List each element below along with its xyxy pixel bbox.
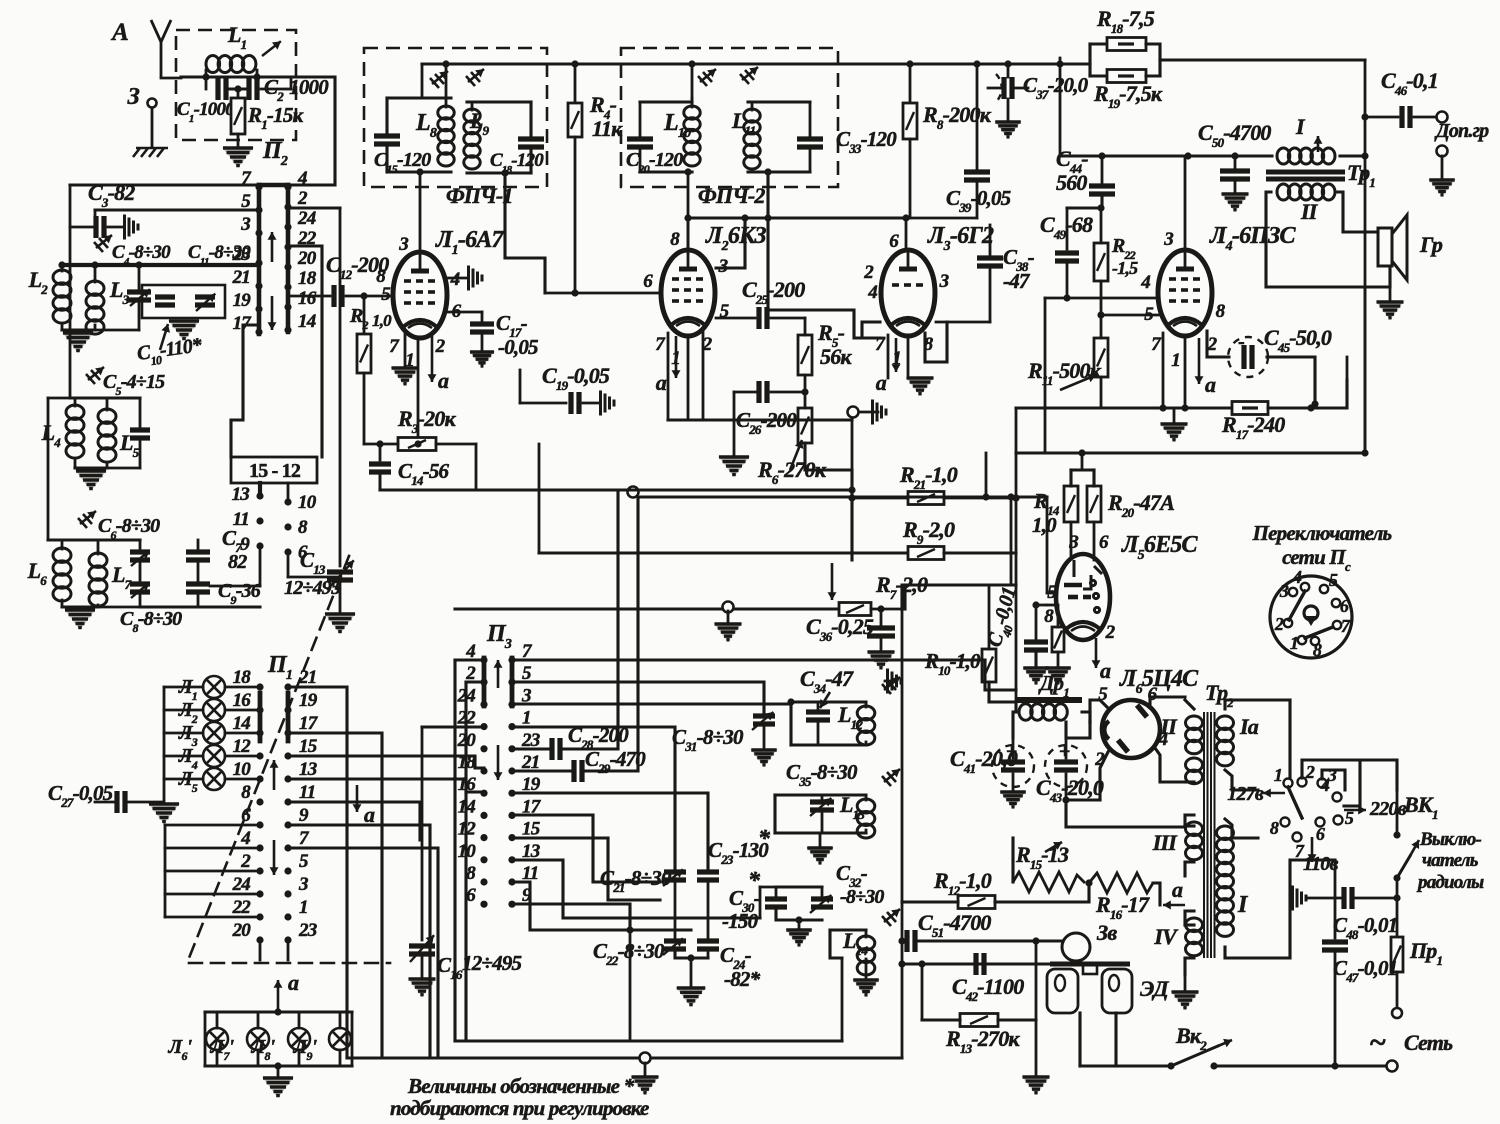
- wire: [74, 398, 77, 406]
- wire: [512, 815, 660, 882]
- lamp Л2: [203, 699, 225, 721]
- capacitor C29: [574, 760, 582, 782]
- wire: [210, 585, 260, 588]
- svg-text:8: 8: [670, 229, 680, 250]
- wire pin6: [1150, 697, 1185, 705]
- wire top bus: [422, 62, 1090, 65]
- wire: [421, 955, 424, 977]
- svg-text:14: 14: [298, 311, 316, 332]
- wire pin7: [887, 335, 890, 378]
- wire: [61, 325, 64, 330]
- wire: [727, 611, 730, 622]
- wire: [288, 825, 430, 1058]
- wire long line R7: [455, 607, 839, 610]
- Tp2 core: [1204, 712, 1215, 958]
- wire: [1288, 700, 1291, 783]
- svg-text:56к: 56к: [820, 344, 852, 369]
- antenna A: [151, 20, 171, 78]
- tube Л6 5Ц4С: [1102, 700, 1160, 758]
- switch arrow down: [268, 296, 277, 330]
- coil Tp2 IV: [1186, 918, 1203, 956]
- wire: [976, 64, 979, 170]
- wire tank top: [748, 100, 810, 103]
- wire: [225, 686, 260, 689]
- wire secondary left: [1266, 192, 1365, 287]
- wire: [1268, 380, 1347, 408]
- wire pin2: [1100, 752, 1108, 800]
- wire: [61, 540, 64, 549]
- wire tank top: [775, 793, 866, 796]
- arrow a down: [353, 785, 362, 812]
- wire Ia tap: [1225, 770, 1258, 790]
- wire lamp bus: [163, 687, 166, 800]
- wire R6 bottom: [805, 443, 852, 560]
- switch P2 left bridge: [257, 185, 262, 334]
- capacitor C30: [765, 899, 787, 907]
- wire: [287, 940, 290, 960]
- wire to right: [902, 585, 1016, 609]
- svg-text:ФПЧ-2: ФПЧ-2: [698, 183, 765, 208]
- wire: [1012, 774, 1015, 790]
- wire: [466, 680, 484, 683]
- wire: [1011, 860, 1014, 882]
- ground under C40: [1022, 667, 1049, 685]
- trimmer mark: [78, 511, 96, 528]
- wire: [165, 847, 260, 850]
- wire: [763, 724, 766, 748]
- svg-text:2: 2: [1274, 614, 1284, 634]
- wire: [1015, 690, 1018, 702]
- svg-text:А: А: [110, 19, 128, 46]
- wire: [760, 886, 776, 889]
- ground under C41: [999, 791, 1026, 809]
- dashed box input filter: [176, 30, 296, 140]
- wire: [204, 1012, 207, 1066]
- wire: [339, 1012, 342, 1028]
- resistor R4: [568, 103, 582, 137]
- svg-text:а: а: [1205, 372, 1216, 397]
- svg-text:-82*: -82*: [724, 967, 761, 991]
- wire: [903, 585, 906, 609]
- wire: [230, 87, 245, 90]
- coil L8: [438, 106, 454, 166]
- wire earth lead: [151, 108, 154, 146]
- wire: [94, 210, 97, 227]
- wire: [164, 709, 203, 712]
- capacitor C8 trimmer: [130, 584, 150, 592]
- coil Tp2 I: [1217, 826, 1234, 936]
- capacitor C21 trimmer: [664, 872, 686, 880]
- wire: [734, 391, 758, 394]
- coil L6: [53, 548, 71, 601]
- wire: [564, 490, 618, 749]
- capacitor near L5: [130, 430, 150, 438]
- wire: [986, 495, 1047, 498]
- wire: [538, 444, 541, 553]
- wire: [1163, 406, 1232, 409]
- svg-text:а: а: [438, 368, 449, 393]
- coil Tp1 secondary: [1277, 184, 1335, 200]
- switch P1 left bridge: [258, 693, 263, 741]
- wire: [164, 778, 203, 781]
- wire: [789, 702, 792, 745]
- capacitor C49: [1055, 253, 1079, 261]
- capacitor C19: [571, 392, 579, 414]
- switch P1 arrow up: [270, 760, 279, 790]
- wire: [298, 1012, 301, 1028]
- ground under 6G2: [906, 377, 935, 396]
- wire: [436, 443, 476, 446]
- capacitor C24: [697, 941, 719, 949]
- ground under R13: [1022, 1076, 1051, 1095]
- wire: [288, 733, 382, 1058]
- resistor R7: [839, 603, 871, 616]
- svg-text:2: 2: [1305, 762, 1315, 782]
- svg-text:3: 3: [398, 234, 408, 255]
- wire: [1389, 287, 1392, 300]
- wire: [1214, 1064, 1386, 1067]
- svg-text:радиолы: радиолы: [1416, 872, 1484, 893]
- trimmer mark: [430, 71, 448, 88]
- wire: [690, 958, 693, 986]
- switch P1 right bridge: [286, 693, 291, 741]
- wire: [771, 317, 805, 320]
- tube Л2 6К3: [661, 250, 715, 336]
- wire: [61, 265, 64, 271]
- wire vertical: [851, 420, 854, 560]
- wire row 1: [512, 727, 675, 868]
- svg-text:5: 5: [299, 851, 309, 872]
- wire B+ line: [1060, 154, 1272, 157]
- wire: [139, 398, 142, 430]
- ground under C30 C32: [785, 929, 812, 947]
- wire: [512, 904, 691, 930]
- wire: [901, 902, 904, 1058]
- arrow a 6K3: [672, 336, 681, 378]
- wire: [216, 1012, 219, 1028]
- wire: [225, 732, 260, 735]
- capacitor C2: [249, 78, 257, 100]
- wire tank bottom: [775, 831, 866, 834]
- svg-text:22: 22: [232, 897, 252, 918]
- wire: [707, 880, 710, 941]
- wire: [288, 848, 438, 1058]
- svg-text:*: *: [758, 826, 771, 852]
- capacitor C20: [627, 139, 653, 147]
- resistor R1: [231, 98, 245, 134]
- wire: [421, 64, 424, 98]
- wire: [74, 460, 77, 468]
- wire tank bottom: [640, 170, 692, 173]
- capacitor C1: [218, 78, 226, 100]
- wire: [1159, 60, 1162, 76]
- svg-text:Переключатель: Переключатель: [1252, 521, 1392, 545]
- wire: [921, 964, 924, 1020]
- wire: [1346, 357, 1349, 380]
- svg-text:1,0: 1,0: [1032, 513, 1057, 537]
- svg-text:16: 16: [298, 288, 317, 309]
- svg-text:12: 12: [233, 736, 252, 757]
- wire: [1066, 263, 1069, 298]
- wire: [1100, 281, 1103, 315]
- wire: [161, 77, 181, 80]
- wire right vertical: [1364, 60, 1367, 453]
- wire pin4: [1155, 748, 1185, 782]
- capacitor C44: [1089, 186, 1115, 194]
- wire: [512, 747, 548, 750]
- wire: [1044, 298, 1047, 453]
- wire: [520, 402, 566, 405]
- svg-text:Величины обозначенные *: Величины обозначенные *: [407, 1074, 635, 1098]
- wire block left: [1088, 44, 1091, 76]
- svg-text:5: 5: [1047, 582, 1057, 603]
- wire: [1012, 738, 1015, 758]
- wire: [445, 64, 448, 98]
- wire: [164, 686, 203, 689]
- wire: [1334, 860, 1337, 938]
- capacitor C43: [1054, 762, 1078, 770]
- wire pin2: [702, 331, 705, 420]
- switch VK1 lever: [1397, 856, 1410, 878]
- wire: [1007, 99, 1010, 120]
- capacitor C27: [117, 791, 125, 813]
- Ps rotor: [1304, 606, 1318, 620]
- wire: [1101, 156, 1104, 183]
- wire: [94, 325, 97, 330]
- wire: [258, 483, 262, 496]
- ground arrow jack: [873, 400, 887, 425]
- wire: [1071, 468, 1094, 471]
- wire pin3 anode: [716, 218, 745, 268]
- svg-text:9: 9: [240, 534, 250, 555]
- wire: [821, 810, 824, 833]
- coil L5: [98, 409, 116, 462]
- wire: [519, 370, 522, 403]
- resistor R11: [1094, 338, 1108, 377]
- capacitor C17: [470, 324, 494, 332]
- wire: [1100, 377, 1103, 408]
- wire: [1034, 650, 1037, 666]
- svg-text:III: III: [1152, 830, 1179, 855]
- svg-text:3: 3: [240, 214, 250, 235]
- wire tank top: [467, 100, 531, 103]
- svg-text:6: 6: [241, 805, 251, 826]
- wire: [138, 300, 141, 330]
- wire: [1082, 712, 1090, 722]
- wire: [1090, 74, 1107, 77]
- coil L13: [857, 799, 875, 838]
- ground under C37: [994, 121, 1021, 139]
- wire: [1153, 883, 1160, 905]
- capacitor C45 electrolytic: [1228, 337, 1268, 377]
- svg-text:4: 4: [867, 282, 877, 303]
- svg-text:Выклю-: Выклю-: [1419, 829, 1481, 850]
- ground under C17: [469, 351, 495, 368]
- resistor R3: [398, 438, 436, 451]
- wire: [1007, 64, 1010, 77]
- arrow a up: [274, 980, 283, 1010]
- wire: [164, 755, 203, 758]
- wire: [288, 756, 484, 768]
- wire: [216, 1050, 219, 1066]
- coil Tp2 IIb: [1186, 758, 1203, 784]
- arrow 110v: [1308, 837, 1317, 862]
- ground 6E5S cathode: [1044, 667, 1071, 685]
- wire primary to bus: [1340, 154, 1365, 157]
- arrow lever: [1410, 840, 1419, 856]
- wire: [583, 402, 598, 405]
- ground arrow L12: [888, 669, 902, 694]
- network switch Ps circle: [1270, 576, 1352, 658]
- svg-text:8: 8: [1313, 640, 1322, 660]
- ground under C50: [1221, 193, 1250, 212]
- wire down left: [69, 185, 72, 265]
- wire: [773, 795, 776, 833]
- ground under L6 L7: [64, 609, 96, 630]
- wire: [138, 265, 141, 292]
- wire: [205, 70, 208, 77]
- wire pin5: [716, 317, 755, 320]
- svg-text:24: 24: [232, 874, 251, 895]
- svg-text:127в: 127в: [1227, 783, 1264, 805]
- svg-text:15 - 12: 15 - 12: [249, 460, 301, 482]
- wire: [819, 833, 822, 846]
- coil Tp2 III: [1186, 822, 1203, 860]
- wire pair top: [776, 885, 822, 888]
- trimmer mark: [882, 677, 900, 694]
- wire: [529, 149, 532, 173]
- svg-text:1: 1: [1171, 350, 1180, 371]
- wire: [165, 824, 260, 827]
- svg-text:560: 560: [1056, 170, 1087, 195]
- wire across L1: [181, 75, 291, 78]
- wire grid: [1045, 297, 1158, 300]
- wire L9 to tube Л2: [505, 173, 545, 293]
- wire: [453, 660, 456, 1041]
- wire: [48, 397, 70, 400]
- wire: [817, 702, 820, 712]
- svg-text:5: 5: [1329, 570, 1338, 590]
- svg-text:21: 21: [298, 667, 316, 688]
- wire: [1234, 156, 1237, 168]
- trimmer mark: [882, 769, 900, 786]
- wire: [259, 546, 262, 586]
- coil L3: [86, 281, 104, 334]
- wire: [421, 727, 424, 940]
- wire: [1015, 453, 1018, 585]
- wire tank top: [387, 96, 451, 99]
- svg-text:2: 2: [863, 262, 874, 283]
- earth ground: [133, 148, 168, 157]
- capacitor C32 trimmer: [811, 899, 833, 907]
- wire: [771, 391, 805, 394]
- wire: [464, 682, 467, 1041]
- wire: [989, 268, 992, 322]
- wire: [1100, 315, 1103, 338]
- wire: [1101, 314, 1158, 317]
- wire Ia top: [1225, 700, 1290, 709]
- arrow a 6E5S: [1092, 638, 1101, 668]
- wire: [61, 600, 64, 607]
- capacitor C46: [1402, 106, 1410, 128]
- trimmer mark: [698, 69, 716, 86]
- wire: [1185, 862, 1194, 876]
- wire: [1014, 702, 1017, 712]
- wire: [475, 444, 478, 490]
- wire: [902, 962, 1050, 965]
- arrow 220v: [1344, 806, 1366, 815]
- svg-text:чатель: чатель: [1422, 850, 1479, 871]
- svg-text:IV: IV: [1153, 924, 1179, 949]
- wire: [880, 609, 883, 625]
- svg-text:1: 1: [299, 897, 308, 918]
- wire: [1035, 605, 1038, 642]
- wire pin7: [667, 333, 670, 420]
- wire to tube top: [419, 172, 422, 253]
- svg-text:16: 16: [233, 690, 252, 711]
- ground under Tp2: [1171, 991, 1200, 1010]
- wire: [422, 725, 484, 728]
- wire: [139, 592, 142, 607]
- capacitor C48: [1344, 887, 1352, 909]
- wire: [998, 1018, 1036, 1021]
- wire: [639, 102, 642, 137]
- wire: [1306, 897, 1343, 900]
- wire: [865, 830, 868, 833]
- Ps lever 2: [1305, 627, 1333, 638]
- wire motor lead: [1078, 1013, 1081, 1066]
- capacitor C7: [186, 552, 210, 560]
- wire: [852, 497, 908, 500]
- wire: [976, 182, 979, 218]
- svg-text:а: а: [1100, 658, 1111, 683]
- svg-text:-150: -150: [722, 909, 759, 933]
- wire: [586, 497, 986, 771]
- capacitor C16: [409, 946, 435, 954]
- resistor R18: [1107, 38, 1146, 51]
- wire: [1065, 774, 1068, 800]
- svg-text:8: 8: [1270, 818, 1279, 838]
- bell Zv: [1062, 933, 1090, 961]
- arrow VK2: [1218, 1039, 1232, 1047]
- svg-text:11: 11: [233, 509, 249, 530]
- lamp Л7': [247, 1028, 269, 1050]
- svg-text:110в: 110в: [1303, 853, 1338, 875]
- speaker Gr: [1378, 228, 1392, 266]
- arrow to C34: [820, 692, 830, 708]
- wire: [1146, 74, 1160, 77]
- svg-text:1,0: 1,0: [372, 311, 392, 330]
- wire C45 right: [1267, 357, 1315, 404]
- svg-text:24: 24: [297, 208, 316, 229]
- wire: [902, 900, 958, 903]
- svg-text:3: 3: [1163, 229, 1173, 250]
- svg-text:8: 8: [1216, 301, 1226, 322]
- svg-text:6: 6: [466, 885, 476, 906]
- wire: [751, 102, 754, 110]
- wire: [675, 949, 708, 958]
- wire: [288, 576, 340, 579]
- wire: [165, 893, 260, 896]
- wire: [545, 292, 661, 295]
- wire: [759, 887, 762, 918]
- svg-text:ЭД: ЭД: [1140, 976, 1170, 1001]
- variable arrow L1: [262, 41, 281, 56]
- wire: [1185, 824, 1194, 827]
- wire: [1185, 923, 1194, 926]
- wire: [865, 930, 868, 937]
- wire: [1035, 941, 1038, 1020]
